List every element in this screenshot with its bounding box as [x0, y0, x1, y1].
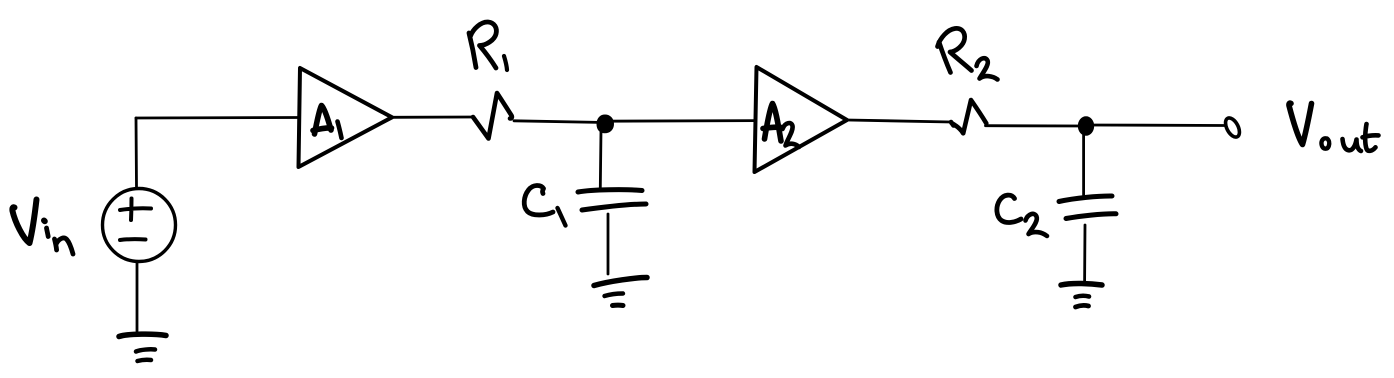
resistor R2 (squiggle)	[951, 100, 986, 133]
label A2	[763, 104, 799, 148]
ground (below C1)	[594, 278, 647, 306]
wire: C2 bottom plate to ground	[1083, 225, 1086, 281]
label C2	[997, 195, 1047, 236]
label R1	[469, 22, 507, 70]
resistor R1 (squiggle)	[473, 93, 512, 139]
wire: node B to output terminal	[1086, 124, 1225, 127]
node B (junction dot)	[1079, 117, 1094, 135]
capacitor C2 (plates)	[1059, 196, 1116, 219]
label A1	[313, 106, 342, 139]
output terminal (open circle)	[1223, 116, 1243, 140]
node A (junction dot)	[598, 116, 614, 133]
voltage source Vin (circle)	[103, 189, 176, 262]
label Vout	[1289, 103, 1379, 151]
label R2	[938, 28, 998, 79]
wire: corner to A1 input	[136, 116, 299, 119]
wire: Vin source top to corner	[135, 118, 138, 187]
wire: node B down to C2	[1082, 134, 1085, 195]
wire: R1 to node A	[514, 121, 605, 123]
op-amp A2 (triangle)	[755, 67, 848, 172]
label Vin	[12, 200, 73, 255]
ground (below C2)	[1061, 283, 1102, 307]
capacitor C1 (plates)	[578, 190, 646, 210]
wire: A1 output to R1	[392, 116, 473, 119]
source plus sign	[120, 199, 151, 221]
wire: node A down to C1	[599, 130, 603, 188]
ground (below Vin source)	[119, 334, 166, 361]
source minus sign	[120, 237, 146, 242]
wire: node A to A2 input	[605, 119, 755, 122]
wire: A2 output to R2	[847, 120, 951, 122]
wire: source bottom to ground	[136, 262, 139, 331]
op-amp A1 (triangle)	[299, 68, 393, 167]
label C1	[524, 185, 565, 225]
wire: R2 to node B	[986, 124, 1087, 127]
wire: C1 bottom plate to ground	[607, 214, 610, 274]
